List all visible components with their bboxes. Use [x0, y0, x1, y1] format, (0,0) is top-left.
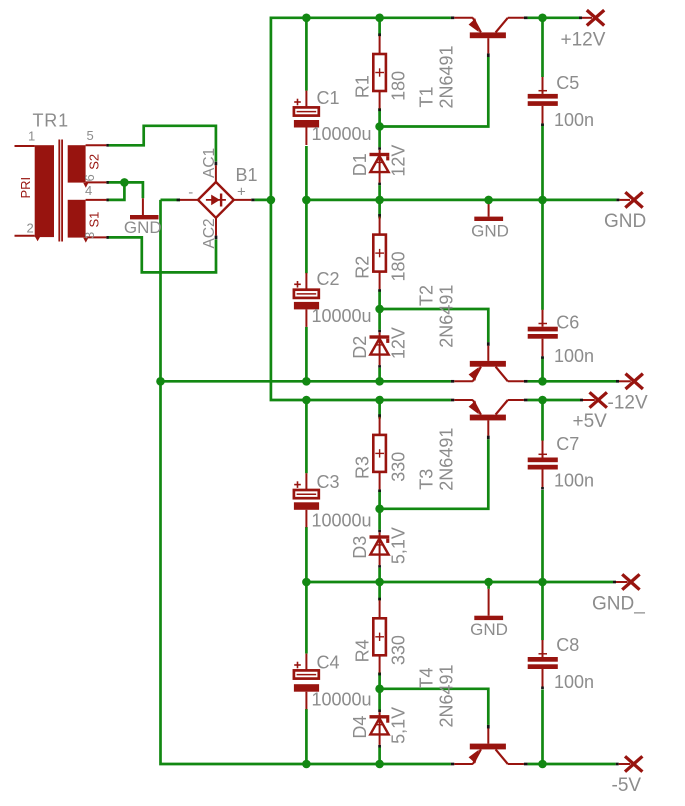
svg-text:GND: GND — [471, 222, 509, 241]
svg-text:GND: GND — [124, 218, 162, 237]
svg-text:10000u: 10000u — [312, 306, 372, 326]
wire left raw-minus rail — [161, 200, 451, 764]
svg-text:3: 3 — [82, 232, 97, 239]
node raw-plus C1 — [302, 13, 311, 22]
wire D2 to rail — [378, 365, 381, 368]
transformer TR1 pin 3 — [86, 236, 107, 238]
wire -12V output — [528, 380, 616, 383]
wire D1 to rail — [378, 183, 381, 186]
svg-text:2N6491: 2N6491 — [437, 664, 457, 727]
wire R2 to node — [378, 290, 381, 309]
svg-text:D3: D3 — [350, 536, 370, 559]
B1 pin AC1 — [215, 162, 218, 166]
svg-text:D2: D2 — [350, 336, 370, 359]
node center tap — [120, 178, 129, 187]
svg-text:S1: S1 — [87, 212, 102, 228]
wire center tap to ground — [124, 182, 142, 198]
wire D3 to rail — [378, 565, 381, 568]
wire T3 base — [380, 439, 489, 509]
node GND_ C7 — [538, 578, 547, 587]
node GND symbol — [484, 196, 493, 205]
node GND C5 — [538, 196, 547, 205]
svg-text:100n: 100n — [554, 672, 594, 692]
node T2 base — [375, 305, 384, 314]
node GND_ symbol — [484, 578, 493, 587]
C2 plus mark — [294, 283, 301, 285]
wire raw-plus rail — [271, 18, 451, 400]
svg-text:2N6491: 2N6491 — [437, 45, 457, 108]
capacitor C4 10000u polarized — [305, 654, 307, 675]
node T3 base — [375, 505, 384, 514]
supply pin GND — [619, 199, 630, 201]
capacitor C5 100n — [542, 77, 544, 94]
wire R3 to node — [378, 490, 381, 509]
capacitor C1 10000u polarized — [305, 91, 307, 112]
wire C3 column — [305, 400, 308, 473]
transformer TR1 pin 5 — [86, 144, 107, 146]
resistor R4 330 — [378, 598, 381, 601]
wire T1 base — [380, 57, 489, 127]
svg-text:T3: T3 — [417, 469, 437, 490]
transformer TR1 secondary S2 polarity arrow — [83, 183, 88, 188]
svg-text:100n: 100n — [554, 110, 594, 130]
svg-text:C6: C6 — [556, 313, 579, 333]
svg-text:D4: D4 — [350, 716, 370, 739]
svg-text:100n: 100n — [554, 471, 594, 491]
svg-text:T1: T1 — [417, 86, 437, 107]
wire pin4 to center tap — [107, 182, 125, 200]
svg-text:4: 4 — [85, 183, 92, 198]
svg-text:-: - — [188, 184, 193, 201]
transformer TR1 pin 2 — [15, 235, 35, 237]
transformer TR1 pin 4 — [86, 199, 107, 201]
B1 pin plus — [234, 199, 251, 201]
wire C8 column — [541, 582, 544, 640]
svg-text:330: 330 — [389, 452, 409, 482]
svg-text:330: 330 — [389, 635, 409, 665]
node raw-minus D2 — [375, 377, 384, 386]
wire R4 top — [378, 582, 381, 601]
svg-text:R1: R1 — [353, 75, 373, 98]
svg-text:2: 2 — [27, 221, 34, 236]
transistor T2 2N6491 — [451, 380, 454, 383]
wire node to D1 — [378, 127, 381, 148]
ground symbol on GND rail — [488, 200, 490, 217]
svg-text:6: 6 — [82, 174, 97, 181]
node +12V C5 — [538, 13, 547, 22]
wire R3 top — [378, 400, 381, 419]
resistor R3 330 — [378, 414, 381, 417]
svg-text:S2: S2 — [87, 154, 102, 170]
svg-text:GND_: GND_ — [592, 594, 645, 615]
svg-text:R4: R4 — [353, 639, 373, 662]
B1 pin AC2 — [215, 218, 217, 236]
svg-text:D1: D1 — [350, 153, 370, 176]
wire B1 minus to left rail — [161, 199, 181, 202]
svg-text:10000u: 10000u — [312, 124, 372, 144]
svg-text:C1: C1 — [317, 88, 340, 108]
node T4 base — [375, 685, 384, 694]
svg-text:AC2: AC2 — [201, 218, 218, 248]
svg-text:5: 5 — [87, 128, 94, 143]
node raw-minus left — [156, 377, 165, 386]
wire pin3 to AC2 — [107, 237, 217, 272]
transistor T4 2N6491 — [451, 763, 454, 766]
node raw-minus D4 — [375, 760, 384, 769]
svg-text:PRI: PRI — [18, 177, 33, 199]
wire C2 column — [305, 200, 308, 273]
node -12V C6 — [538, 377, 547, 386]
wire raw-minus rail to T2 — [161, 380, 451, 383]
wire node to D2 — [378, 309, 381, 330]
svg-text:10000u: 10000u — [312, 690, 372, 710]
svg-text:B1: B1 — [236, 165, 258, 185]
svg-text:R2: R2 — [353, 256, 373, 279]
capacitor C2 10000u polarized — [305, 273, 307, 294]
zener diode D4 5,1V — [379, 712, 381, 745]
svg-text:12V: 12V — [388, 145, 408, 177]
zener diode D1 12V — [379, 150, 381, 183]
node GND_ D3 — [375, 578, 384, 587]
wire T4 base — [380, 689, 489, 725]
svg-text:+: + — [237, 184, 246, 201]
svg-text:GND: GND — [470, 620, 508, 639]
svg-text:T2: T2 — [417, 285, 437, 306]
wire R4 to node — [378, 672, 381, 689]
node raw-plus2 R3 — [375, 396, 384, 405]
node T1 base — [375, 122, 384, 131]
svg-text:100n: 100n — [554, 346, 594, 366]
wire R1 to node — [378, 108, 381, 126]
transistor T3 2N6491 — [451, 399, 454, 402]
svg-text:12V: 12V — [388, 327, 408, 359]
svg-text:10000u: 10000u — [312, 511, 372, 531]
wire +5V output — [528, 399, 580, 402]
wire R1 top — [378, 18, 381, 37]
capacitor C3 10000u polarized — [305, 473, 307, 494]
transformer TR1 secondary S1 polarity arrow — [83, 238, 88, 243]
svg-text:180: 180 — [389, 251, 409, 281]
ground symbol on GND_ rail — [488, 589, 490, 616]
wire -5V output — [528, 763, 616, 766]
capacitor C7 100n — [542, 441, 544, 458]
svg-text:1: 1 — [28, 129, 35, 144]
wire D4 to rail — [378, 745, 381, 748]
supply pin +12V — [582, 17, 592, 19]
node raw-plus2 C3 — [302, 396, 311, 405]
transformer TR1 primary winding PRI — [35, 145, 54, 237]
svg-text:C3: C3 — [317, 472, 340, 492]
supply pin -12V — [619, 380, 631, 382]
wire pin5 to AC1 — [109, 126, 216, 162]
C3 plus mark — [294, 484, 301, 486]
wire B1 plus to raw-plus rail — [255, 199, 271, 202]
svg-text:C5: C5 — [556, 73, 579, 93]
wire T2 base — [380, 309, 489, 342]
transformer TR1 pin 6 — [86, 181, 107, 183]
B1 pin minus — [177, 199, 180, 202]
wire R2 top — [378, 200, 381, 219]
svg-text:T4: T4 — [417, 667, 437, 688]
node GND C1 — [302, 196, 311, 205]
transformer TR1 secondary winding S2 — [68, 145, 86, 182]
wire C4 column — [305, 582, 308, 654]
svg-text:TR1: TR1 — [33, 111, 69, 131]
svg-text:-5V: -5V — [612, 775, 642, 796]
svg-text:+5V: +5V — [573, 411, 608, 432]
transistor T1 2N6491 — [451, 16, 454, 19]
transformer TR1 secondary winding S1 — [68, 200, 86, 238]
svg-text:C8: C8 — [556, 635, 579, 655]
zener diode D3 5,1V — [379, 532, 381, 565]
svg-text:R3: R3 — [353, 456, 373, 479]
C1 plus mark — [294, 101, 301, 103]
ground symbol at transformer center tap — [142, 198, 144, 215]
supply pin -5V — [619, 763, 631, 765]
resistor R1 180 — [378, 33, 381, 36]
svg-text:5,1V: 5,1V — [388, 707, 408, 744]
C4 plus mark — [294, 664, 301, 666]
transformer TR1 pin 1 — [15, 145, 35, 147]
capacitor C8 100n — [542, 640, 544, 657]
node GND_ C3 — [302, 578, 311, 587]
svg-text:+12V: +12V — [561, 29, 606, 50]
node raw-minus C4 — [302, 760, 311, 769]
svg-text:2N6491: 2N6491 — [437, 285, 457, 348]
svg-text:AC1: AC1 — [201, 148, 218, 178]
bridge rectifier B1 — [198, 182, 234, 218]
wire C7 column — [541, 400, 544, 441]
wire pin6 to center tap — [107, 181, 125, 184]
wire node to D4 — [378, 689, 381, 710]
wire node to D3 — [378, 509, 381, 530]
node B1 plus — [267, 196, 276, 205]
wire GND rail — [306, 199, 616, 202]
wire C5 column — [541, 18, 544, 77]
svg-text:2N6491: 2N6491 — [437, 428, 457, 491]
wire GND_ rail — [306, 581, 613, 584]
node raw-minus C2 — [302, 377, 311, 386]
wire +12V output — [528, 16, 579, 19]
node +5V C7 — [538, 396, 547, 405]
node -5V C8 — [538, 760, 547, 769]
svg-text:C4: C4 — [317, 653, 340, 673]
svg-text:-12V: -12V — [608, 392, 648, 413]
svg-text:GND: GND — [604, 211, 646, 232]
svg-text:180: 180 — [389, 71, 409, 101]
svg-text:C7: C7 — [556, 434, 579, 454]
node raw-plus R1 — [375, 13, 384, 22]
wire C6 column — [541, 200, 544, 310]
node GND D1 — [375, 196, 384, 205]
supply pin +5V — [583, 399, 595, 401]
wire C1 column — [305, 18, 308, 91]
supply pin GND_ — [616, 581, 628, 583]
resistor R2 180 — [378, 214, 381, 217]
capacitor C6 100n — [542, 310, 544, 327]
transformer TR1 core — [58, 140, 60, 242]
svg-text:C2: C2 — [317, 269, 340, 289]
zener diode D2 12V — [379, 332, 381, 365]
svg-text:5,1V: 5,1V — [388, 527, 408, 564]
transformer TR1 primary polarity arrow — [35, 237, 40, 242]
